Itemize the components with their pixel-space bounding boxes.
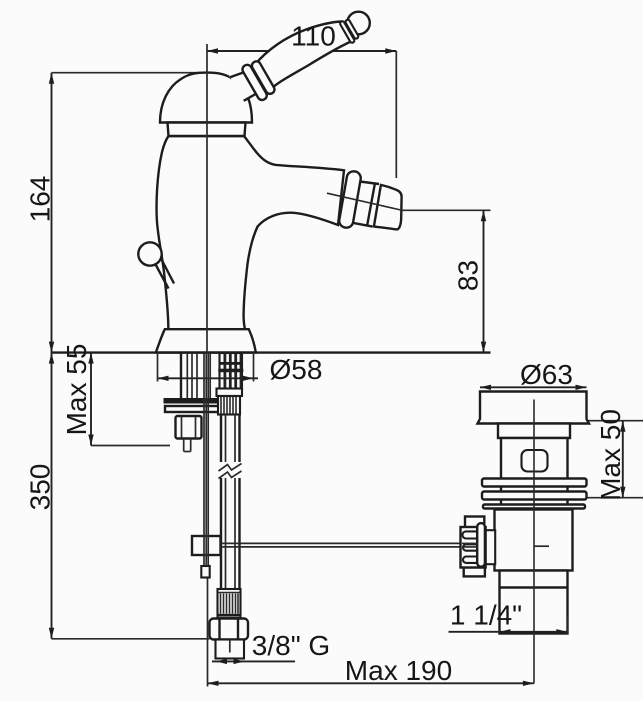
svg-text:Max 50: Max 50 <box>595 409 626 501</box>
svg-text:110: 110 <box>291 21 336 52</box>
svg-text:Ø63: Ø63 <box>520 359 573 390</box>
svg-text:3/8" G: 3/8" G <box>252 630 330 661</box>
svg-text:1 1/4": 1 1/4" <box>450 600 522 631</box>
svg-text:164: 164 <box>25 176 56 223</box>
svg-text:Ø58: Ø58 <box>270 354 323 385</box>
svg-text:83: 83 <box>453 260 484 291</box>
svg-text:350: 350 <box>25 464 56 511</box>
svg-text:Max 55: Max 55 <box>61 344 92 436</box>
svg-text:Max 190: Max 190 <box>345 655 452 686</box>
